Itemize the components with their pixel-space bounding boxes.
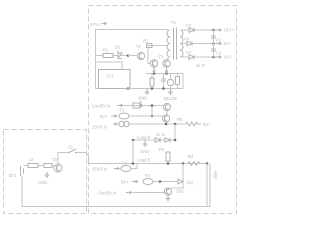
svg-text:2x: 2x bbox=[29, 157, 34, 162]
svg-text:5V+: 5V+ bbox=[100, 114, 108, 119]
svg-text:S1: S1 bbox=[68, 145, 74, 150]
transformer T1 bbox=[167, 20, 183, 60]
svg-text:D3: D3 bbox=[184, 36, 190, 41]
dashed enclosure box: power supply unit bbox=[89, 6, 237, 214]
svg-text:2N2: 2N2 bbox=[176, 189, 184, 194]
wire: switch output to load rail bbox=[76, 153, 89, 164]
wire: Q5 emitter tick bbox=[165, 122, 167, 124]
svg-text:T5: T5 bbox=[52, 157, 58, 162]
wire: Q4-Q5 link bbox=[166, 111, 168, 115]
node: -15V rail junction bbox=[212, 56, 215, 59]
ground bbox=[166, 195, 171, 201]
wire: top rail to transformer primary bbox=[96, 29, 169, 31]
controller IC1 box bbox=[99, 70, 131, 89]
svg-text:27V+: 27V+ bbox=[90, 22, 101, 27]
node: base drive junction bbox=[127, 54, 130, 57]
svg-text:BT1: BT1 bbox=[9, 173, 17, 178]
wire: Con/5V line bbox=[124, 105, 163, 107]
svg-text:Con/5V in: Con/5V in bbox=[98, 191, 117, 196]
transistor Q3 bbox=[150, 60, 157, 67]
node: +5V rail junction bbox=[212, 42, 215, 45]
svg-text:BD135: BD135 bbox=[164, 96, 177, 101]
capacitor C2 bbox=[211, 36, 216, 38]
svg-text:5V+: 5V+ bbox=[203, 122, 211, 127]
svg-text:5V+: 5V+ bbox=[224, 41, 232, 46]
component K1 bbox=[133, 103, 140, 108]
svg-text:15V+: 15V+ bbox=[224, 28, 234, 33]
svg-text:R7: R7 bbox=[143, 39, 149, 44]
wire: secondary tap 3 bbox=[182, 56, 214, 58]
wire: 5V lower line bbox=[153, 181, 178, 183]
wire: primary bottom drop bbox=[167, 57, 168, 61]
capacitor C3 bbox=[211, 49, 216, 51]
svg-text:R5: R5 bbox=[177, 117, 183, 122]
wire: diode to Q6 bbox=[172, 184, 184, 188]
svg-text:GND: GND bbox=[38, 180, 47, 185]
secondary winding bbox=[180, 30, 183, 57]
wire: right leg bbox=[182, 74, 184, 89]
node: load rail junctions bbox=[132, 162, 135, 165]
svg-text:+Bat: +Bat bbox=[213, 170, 218, 180]
wire: battery minus long return bbox=[22, 164, 210, 207]
svg-text:4x D: 4x D bbox=[156, 132, 165, 137]
svg-text:15V/0 in: 15V/0 in bbox=[92, 125, 108, 130]
resistor R6 bbox=[44, 164, 52, 168]
svg-text:T1: T1 bbox=[171, 20, 177, 25]
wire: from rail to diode bbox=[182, 164, 184, 180]
ground bbox=[143, 140, 148, 147]
svg-text:D2: D2 bbox=[186, 23, 192, 28]
capacitor C4 electrolytic bbox=[167, 79, 173, 85]
wire: tap down to Q3 base bbox=[148, 48, 150, 64]
wire: bottom rail of converter bbox=[96, 88, 184, 90]
svg-text:Load R: Load R bbox=[137, 158, 151, 163]
transistor Q6 bbox=[164, 188, 171, 195]
wire: gnd stem to con line bbox=[140, 101, 142, 106]
diode D7 bbox=[178, 179, 183, 184]
svg-text:C2: C2 bbox=[216, 38, 222, 43]
svg-text:C3: C3 bbox=[216, 51, 222, 56]
wire: left vertical from top rail bbox=[95, 30, 97, 89]
wire: output arrow +5V bbox=[214, 42, 222, 44]
wire: 15V charge line bbox=[129, 123, 186, 125]
wire: charge feed vertical bbox=[174, 124, 176, 140]
wire: Con line to Q6 base bbox=[133, 192, 165, 194]
node: rail junctions bbox=[153, 72, 156, 75]
wire: secondary tap 2 bbox=[182, 43, 214, 45]
svg-text:R4: R4 bbox=[188, 154, 194, 159]
diode D5 bbox=[155, 138, 160, 142]
svg-text:R1: R1 bbox=[103, 48, 109, 53]
svg-text:F2: F2 bbox=[122, 161, 128, 166]
core bbox=[174, 28, 177, 60]
svg-text:2x D: 2x D bbox=[196, 63, 205, 68]
wire: IC feedback line bbox=[96, 62, 123, 70]
diode D6 bbox=[165, 138, 170, 142]
wire: output arrow +15V bbox=[214, 29, 222, 31]
connector J1 bbox=[119, 121, 124, 126]
wire: to load rail bbox=[131, 164, 137, 169]
wire: down to load rail bbox=[132, 140, 134, 164]
svg-text:Con/5V in: Con/5V in bbox=[92, 104, 111, 109]
wire: charge line to load node bbox=[133, 139, 175, 141]
svg-text:(2x): (2x) bbox=[186, 180, 194, 185]
ground bbox=[145, 89, 150, 95]
transistor Q5 bbox=[162, 115, 169, 122]
wire: output filter bus bbox=[213, 30, 215, 57]
node: charge junction bbox=[174, 123, 177, 126]
svg-text:F3: F3 bbox=[145, 173, 151, 178]
svg-text:15V/0 in: 15V/0 in bbox=[92, 167, 108, 172]
svg-text:GND: GND bbox=[140, 149, 149, 154]
wire: 5V+ line bbox=[129, 115, 163, 117]
wire: collector up to switch bbox=[58, 153, 68, 165]
wire: secondary tap 1 bbox=[182, 29, 214, 31]
wire: Q2 emitter arrow bbox=[165, 67, 167, 73]
dashed enclosure box: battery unit bbox=[4, 130, 87, 214]
svg-text:D4: D4 bbox=[186, 50, 192, 55]
wire: to battery plus bbox=[206, 164, 208, 207]
resistor R2 bbox=[151, 74, 153, 79]
ground bbox=[168, 89, 173, 95]
primary winding bbox=[167, 30, 170, 57]
svg-text:IC1: IC1 bbox=[107, 74, 114, 79]
wire: Q3 emitter arrow bbox=[153, 67, 155, 73]
svg-text:F1: F1 bbox=[120, 108, 126, 113]
wire: battery to resistor bbox=[24, 165, 29, 167]
ground bbox=[45, 172, 50, 178]
svg-text:Load R: Load R bbox=[137, 135, 151, 140]
wire: emitter rail bbox=[146, 73, 183, 75]
svg-text:D1: D1 bbox=[115, 45, 121, 50]
resistor R8 bbox=[176, 77, 180, 85]
svg-text:R6: R6 bbox=[159, 147, 165, 152]
svg-text:GND: GND bbox=[138, 96, 147, 101]
node: lower junction bbox=[159, 180, 162, 183]
capacitor C1 bbox=[163, 74, 165, 89]
wire: output arrow -15V bbox=[214, 56, 222, 58]
svg-text:T2: T2 bbox=[136, 44, 142, 49]
svg-text:5V+: 5V+ bbox=[121, 180, 129, 185]
svg-text:T3: T3 bbox=[159, 55, 165, 60]
node: bottom rail junctions bbox=[127, 87, 130, 90]
node: charge line left junction bbox=[132, 139, 135, 142]
node: +15V rail junction bbox=[212, 29, 215, 32]
wire: load rail bbox=[89, 163, 208, 165]
wire: snubber to primary tap bbox=[146, 45, 168, 47]
svg-text:15V-: 15V- bbox=[224, 55, 233, 60]
wire: link rows bbox=[151, 106, 153, 117]
